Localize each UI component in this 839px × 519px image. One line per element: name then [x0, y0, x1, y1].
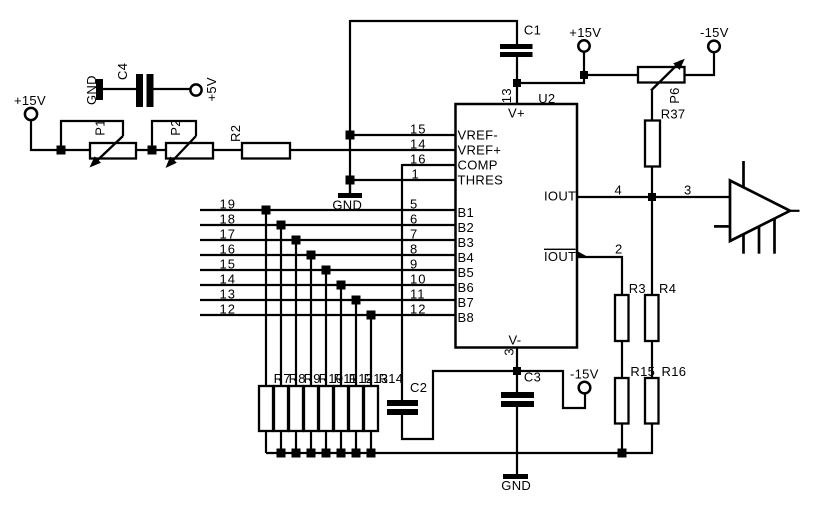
svg-text:-15V: -15V — [570, 367, 599, 382]
svg-text:C2: C2 — [410, 380, 427, 395]
svg-text:10: 10 — [410, 272, 426, 287]
svg-text:B8: B8 — [458, 310, 475, 325]
svg-text:1: 1 — [412, 167, 420, 182]
svg-text:R3: R3 — [629, 281, 646, 296]
svg-text:15: 15 — [410, 122, 426, 137]
svg-text:B5: B5 — [458, 265, 475, 280]
svg-text:THRES: THRES — [458, 173, 504, 188]
svg-text:B7: B7 — [458, 295, 475, 310]
svg-text:GND: GND — [84, 75, 99, 105]
svg-text:P2: P2 — [168, 119, 183, 136]
svg-text:V-: V- — [509, 333, 522, 348]
svg-text:2: 2 — [615, 242, 623, 257]
svg-text:C4: C4 — [115, 63, 130, 80]
svg-text:17: 17 — [220, 227, 236, 242]
svg-text:+15V: +15V — [569, 25, 601, 40]
svg-text:9: 9 — [410, 257, 418, 272]
svg-text:VREF+: VREF+ — [458, 143, 502, 158]
svg-text:R2: R2 — [228, 125, 243, 142]
svg-text:15: 15 — [220, 257, 236, 272]
svg-text:8: 8 — [410, 242, 418, 257]
svg-text:12: 12 — [220, 302, 236, 317]
svg-text:19: 19 — [220, 197, 236, 212]
svg-text:5: 5 — [410, 197, 418, 212]
svg-text:R4: R4 — [659, 281, 676, 296]
svg-text:4: 4 — [615, 182, 623, 197]
svg-text:14: 14 — [220, 272, 236, 287]
svg-text:VREF-: VREF- — [458, 128, 499, 143]
svg-text:COMP: COMP — [458, 158, 498, 173]
svg-text:3: 3 — [502, 348, 517, 356]
svg-text:P1: P1 — [92, 119, 107, 136]
svg-text:13: 13 — [220, 287, 236, 302]
svg-text:14: 14 — [410, 137, 426, 152]
svg-text:18: 18 — [220, 212, 236, 227]
svg-text:-15V: -15V — [700, 25, 729, 40]
svg-text:U2: U2 — [538, 91, 555, 106]
svg-text:R15: R15 — [630, 364, 655, 379]
svg-text:7: 7 — [410, 227, 418, 242]
svg-text:B3: B3 — [458, 235, 475, 250]
svg-text:B2: B2 — [458, 220, 475, 235]
svg-text:11: 11 — [410, 287, 426, 302]
svg-text:B4: B4 — [458, 250, 475, 265]
svg-text:GND: GND — [501, 478, 531, 493]
svg-text:C1: C1 — [524, 23, 541, 38]
svg-text:GND: GND — [332, 198, 362, 213]
svg-text:6: 6 — [410, 212, 418, 227]
svg-text:+5V: +5V — [204, 77, 219, 101]
svg-text:IOUT: IOUT — [544, 189, 576, 204]
svg-text:P6: P6 — [667, 87, 682, 104]
svg-text:B1: B1 — [458, 205, 475, 220]
svg-text:16: 16 — [410, 152, 426, 167]
svg-text:V+: V+ — [508, 106, 525, 121]
svg-text:R14: R14 — [379, 371, 404, 386]
svg-text:B6: B6 — [458, 280, 475, 295]
svg-text:3: 3 — [684, 182, 692, 197]
svg-text:R37: R37 — [661, 106, 686, 121]
svg-text:IOUT: IOUT — [544, 249, 576, 264]
svg-text:+15V: +15V — [14, 93, 46, 108]
svg-text:16: 16 — [220, 242, 236, 257]
svg-text:13: 13 — [499, 88, 514, 103]
svg-text:C3: C3 — [524, 370, 541, 385]
svg-text:12: 12 — [410, 302, 426, 317]
svg-text:R16: R16 — [662, 364, 687, 379]
